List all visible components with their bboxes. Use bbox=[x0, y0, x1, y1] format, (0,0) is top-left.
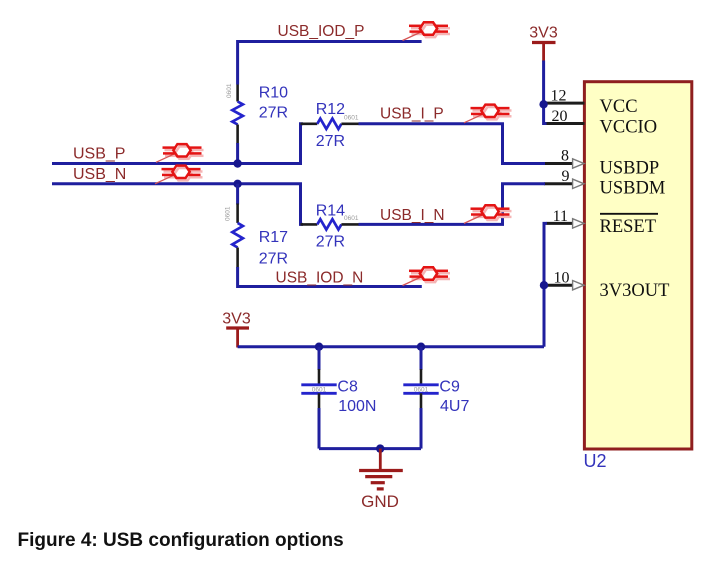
ground GND bbox=[359, 449, 403, 511]
capacitor C9 bbox=[403, 369, 438, 409]
wire C8 top bbox=[318, 347, 321, 370]
wire pin 11 to pin 10 to rail bbox=[544, 223, 547, 346]
diff pair symbol USB_I_N bbox=[464, 205, 512, 223]
resistor R17 bbox=[225, 204, 243, 268]
svg-text:0601: 0601 bbox=[226, 83, 233, 98]
caption bbox=[18, 530, 344, 552]
svg-text:27R: 27R bbox=[259, 250, 288, 267]
resistor R14 bbox=[301, 215, 360, 230]
wire USB_IOD_N bbox=[238, 267, 422, 287]
wire 3V3 to pin 12 bbox=[542, 61, 545, 105]
svg-text:3V3: 3V3 bbox=[222, 310, 251, 327]
diff pair symbol USB_P bbox=[156, 144, 204, 162]
power 3V3 (top) bbox=[529, 25, 558, 62]
svg-text:USB_P: USB_P bbox=[73, 145, 125, 162]
junction GND bbox=[376, 444, 384, 452]
pin 12 VCC bbox=[545, 88, 638, 118]
wire R10 to USB_P junction bbox=[236, 143, 239, 164]
wire to pin 20 bbox=[544, 104, 547, 123]
diff pair symbol USB_N bbox=[155, 166, 203, 184]
svg-text:USBDM: USBDM bbox=[600, 178, 666, 198]
svg-text:9: 9 bbox=[562, 168, 570, 185]
svg-text:10: 10 bbox=[554, 270, 570, 287]
svg-text:USB_I_P: USB_I_P bbox=[380, 106, 444, 123]
svg-text:C8: C8 bbox=[337, 379, 358, 396]
svg-text:0601: 0601 bbox=[344, 215, 359, 222]
svg-text:USB_I_N: USB_I_N bbox=[380, 207, 445, 224]
svg-text:U2: U2 bbox=[584, 451, 607, 471]
svg-text:USBDP: USBDP bbox=[600, 158, 660, 178]
svg-text:RESET: RESET bbox=[600, 217, 657, 237]
wire USB_I_N to pin 9 bbox=[359, 184, 546, 225]
capacitor C8 bbox=[301, 369, 336, 409]
pin 8 USBDP bbox=[544, 148, 659, 179]
pin 9 USBDM bbox=[544, 168, 665, 198]
junction USB_P bbox=[233, 159, 241, 167]
diff pair symbol USB_I_P bbox=[464, 105, 512, 123]
svg-text:R12: R12 bbox=[316, 101, 345, 118]
svg-text:3V3: 3V3 bbox=[529, 25, 558, 42]
svg-text:11: 11 bbox=[553, 208, 568, 225]
resistor R12 bbox=[301, 115, 360, 130]
power 3V3 (bottom) bbox=[222, 310, 251, 347]
wire cap bottom rail bbox=[319, 447, 421, 450]
svg-text:R10: R10 bbox=[259, 85, 288, 102]
svg-text:27R: 27R bbox=[316, 133, 345, 150]
wire C8 bottom bbox=[318, 408, 321, 449]
wire USB_I_P to pin 8 bbox=[359, 124, 546, 164]
wire C9 bottom bbox=[420, 408, 423, 449]
diff pair symbol USB_IOD_P bbox=[403, 22, 451, 40]
junction at pin 12 bbox=[539, 100, 547, 108]
wire USB_IOD_P bbox=[238, 42, 422, 85]
wire USB_P bbox=[52, 124, 303, 164]
svg-text:27R: 27R bbox=[259, 104, 288, 121]
diff pair symbol USB_IOD_N bbox=[403, 267, 451, 285]
svg-text:GND: GND bbox=[361, 492, 399, 511]
resistor R10 bbox=[226, 83, 243, 144]
svg-text:0601: 0601 bbox=[414, 387, 429, 394]
IC U2 body bbox=[584, 82, 691, 449]
svg-text:12: 12 bbox=[551, 88, 567, 105]
svg-text:VCCIO: VCCIO bbox=[600, 117, 658, 137]
svg-text:R14: R14 bbox=[316, 203, 345, 220]
svg-text:0601: 0601 bbox=[225, 206, 232, 221]
svg-text:C9: C9 bbox=[439, 379, 460, 396]
svg-text:4U7: 4U7 bbox=[440, 398, 469, 415]
svg-text:100N: 100N bbox=[338, 398, 376, 415]
pin 20 VCCIO bbox=[545, 108, 657, 137]
svg-text:20: 20 bbox=[552, 108, 568, 125]
junction at pin 10 bbox=[540, 281, 548, 289]
svg-text:0601: 0601 bbox=[312, 387, 327, 394]
wire USB_N to R17 bbox=[236, 184, 239, 205]
junction rail C9 bbox=[417, 343, 425, 351]
svg-text:8: 8 bbox=[561, 148, 569, 165]
wire USB_N bbox=[52, 184, 303, 225]
svg-text:0601: 0601 bbox=[344, 115, 359, 122]
svg-text:USB_IOD_P: USB_IOD_P bbox=[278, 23, 365, 40]
svg-text:USB_IOD_N: USB_IOD_N bbox=[276, 269, 364, 286]
junction USB_N bbox=[233, 180, 241, 188]
svg-text:VCC: VCC bbox=[600, 97, 638, 117]
svg-text:USB_N: USB_N bbox=[73, 166, 126, 183]
wire C9 top bbox=[420, 347, 423, 370]
wire 3V3 rail bbox=[238, 345, 544, 348]
junction rail C8 bbox=[315, 343, 323, 351]
pin 10 3V3OUT bbox=[547, 270, 670, 301]
pin 11 RESET bbox=[547, 208, 659, 237]
svg-text:R17: R17 bbox=[259, 229, 288, 246]
wire pin 10 stub bbox=[544, 284, 547, 287]
svg-text:3V3OUT: 3V3OUT bbox=[600, 281, 670, 301]
svg-text:27R: 27R bbox=[316, 233, 345, 250]
